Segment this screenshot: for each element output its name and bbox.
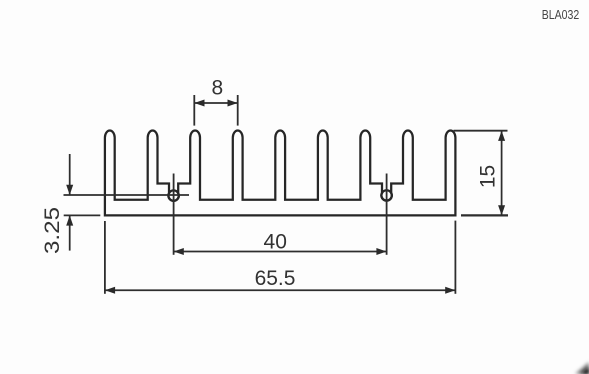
svg-text:3.25: 3.25: [41, 207, 64, 254]
page corner fold mark, bottom-right: [575, 362, 589, 374]
svg-text:40: 40: [264, 231, 287, 254]
svg-text:8: 8: [212, 77, 224, 100]
screw-port bulb circle, left groove: [168, 190, 178, 200]
dim 65.5: dimension line: [105, 289, 456, 291]
dim 40: right arrowhead: [376, 248, 386, 255]
heatsink body outline (9-fin extrusion profile): [105, 131, 456, 216]
dim 40: left arrowhead: [174, 248, 184, 255]
dim 8: right arrowhead: [228, 100, 238, 107]
dim 65.5: extension line left: [104, 221, 106, 294]
dim 8: dimension line: [194, 102, 237, 104]
dim 65.5: left arrowhead: [105, 287, 115, 294]
dim 40: extension line right (through right groove): [386, 174, 388, 255]
svg-text:65.5: 65.5: [255, 267, 296, 290]
dim 15: top arrowhead: [498, 131, 505, 141]
dim 40: extension line left (through left groove): [173, 174, 175, 255]
dim 8: left arrowhead: [194, 100, 204, 107]
dim 3.25: upper dimension leader with down arrowhead: [69, 154, 71, 195]
dim 8: extension line right (fin4 centre): [237, 95, 239, 126]
dim 8: extension line left (fin3 centre): [193, 95, 195, 126]
svg-text:15: 15: [476, 165, 499, 188]
dim 15: top extension line: [454, 130, 508, 132]
dim 40: dimension line: [174, 251, 387, 253]
dim 15: bottom extension line: [461, 214, 508, 216]
dim 15: dimension line: [501, 131, 503, 216]
dim 3.25: lower extension line (base bottom level): [64, 214, 101, 216]
dim 65.5: extension line right: [454, 221, 456, 294]
svg-text:BLA032: BLA032: [542, 7, 580, 22]
dim 15: bottom arrowhead: [498, 205, 505, 215]
screw-port bulb circle, right groove: [381, 190, 391, 200]
dim 3.25: upper extension line (channel floor level): [64, 194, 190, 196]
dim 65.5: right arrowhead: [445, 287, 455, 294]
dim 3.25: lower dimension leader with up arrowhead: [69, 215, 71, 250]
